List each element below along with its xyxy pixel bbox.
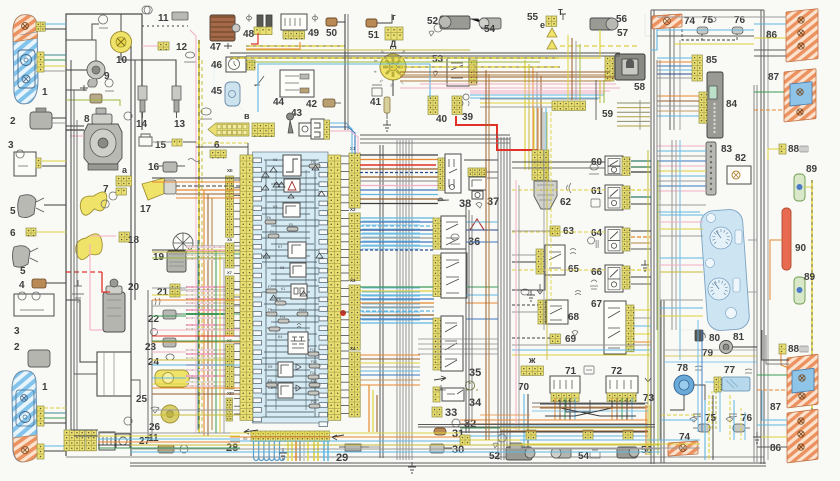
wire stubs left connectors to block bbox=[234, 179, 240, 181]
relay K3 hazard bbox=[284, 179, 300, 192]
svg-text:86: 86 bbox=[766, 30, 778, 41]
svg-text:2: 2 bbox=[14, 342, 20, 353]
wire right inner bundle bbox=[753, 85, 755, 462]
svg-text:83: 83 bbox=[721, 144, 733, 155]
sensor 32 bbox=[452, 419, 460, 427]
wire cross runs X to pillar bbox=[466, 221, 498, 223]
svg-text:55: 55 bbox=[527, 12, 539, 23]
wire right body frame bbox=[650, 10, 652, 464]
svg-text:57: 57 bbox=[617, 28, 629, 39]
fuse pills lower right bbox=[308, 352, 319, 356]
svg-text:14: 14 bbox=[136, 119, 148, 130]
spark plug 14 bbox=[138, 86, 147, 100]
wire cross dark bundle mid bbox=[360, 134, 510, 136]
svg-text:35: 35 bbox=[469, 367, 481, 379]
wire icons door switches bbox=[693, 414, 701, 417]
relay K1 bbox=[291, 284, 307, 299]
svg-text:16: 16 bbox=[148, 162, 160, 173]
wire 58 drops bbox=[599, 80, 601, 103]
connector 88 bottom bbox=[779, 344, 786, 354]
svg-text:XIII: XIII bbox=[227, 391, 234, 396]
motor 19 heater fan motor bbox=[173, 233, 193, 253]
wire trunk area bbox=[670, 395, 684, 410]
svg-text:7: 7 bbox=[103, 184, 109, 195]
connector 62 instrument harness bbox=[532, 150, 549, 180]
svg-text:50: 50 bbox=[326, 28, 338, 39]
relay K5 bbox=[283, 203, 300, 217]
svg-text:XII: XII bbox=[227, 168, 233, 173]
connector X0 bottom strip bbox=[251, 431, 329, 441]
starter 52 bottom bbox=[506, 447, 532, 460]
connector 12 bbox=[158, 42, 169, 50]
sensor 42 bbox=[323, 99, 335, 107]
svg-text:65: 65 bbox=[568, 264, 580, 275]
svg-text:51: 51 bbox=[368, 30, 380, 41]
label XIII connector bbox=[226, 398, 232, 421]
motor 56 rear wiper bbox=[590, 18, 614, 30]
connector 63 bbox=[550, 226, 560, 236]
item 41 antenna bbox=[384, 97, 390, 113]
wire 85 feeds bbox=[657, 57, 692, 59]
wire X2 X3 extra cyans bbox=[362, 220, 420, 222]
wire left vertical feeders bbox=[215, 250, 217, 433]
ECU 25 engine control unit bbox=[97, 352, 131, 396]
wire pillar to right section bbox=[512, 344, 651, 346]
svg-text:K7: K7 bbox=[278, 245, 282, 249]
wire 11 dashed bbox=[142, 25, 188, 27]
svg-text:47: 47 bbox=[210, 42, 222, 53]
wire 57 bundle vertical bbox=[669, 14, 671, 130]
relay K6 bbox=[283, 155, 301, 176]
svg-text:X4: X4 bbox=[350, 346, 356, 351]
wire to distributor bbox=[392, 80, 394, 96]
connector XII bbox=[226, 176, 234, 237]
mounting block body bbox=[253, 152, 329, 423]
switch 65 mirror adjust bbox=[536, 249, 545, 274]
wire bottom right cluster bbox=[661, 414, 700, 416]
svg-text:X3: X3 bbox=[350, 278, 356, 283]
svg-text:F4: F4 bbox=[270, 230, 274, 234]
svg-text:X8: X8 bbox=[227, 237, 233, 242]
connector 85 bbox=[692, 55, 702, 81]
svg-text:87: 87 bbox=[770, 402, 782, 413]
generator 8 bbox=[84, 124, 122, 164]
svg-text:74: 74 bbox=[684, 16, 696, 27]
wire 83 feeds bbox=[657, 145, 706, 147]
sensor 29 coolant temperature bbox=[345, 444, 361, 451]
connector 27 bottom group bbox=[64, 430, 85, 451]
sensor 50 bbox=[326, 18, 337, 26]
connector headlight lower bbox=[37, 406, 44, 426]
svg-text:18: 18 bbox=[128, 235, 140, 246]
svg-text:F7: F7 bbox=[268, 285, 272, 289]
sensor 16 air temp bbox=[163, 162, 177, 172]
sensor 31 brake fluid level bbox=[434, 428, 446, 435]
wire 89 yellow dashed bbox=[811, 180, 813, 300]
svg-text:г: г bbox=[392, 12, 396, 22]
lamp 82 glovebox bbox=[727, 166, 751, 184]
connector 83 bbox=[706, 142, 716, 195]
icons mid bbox=[521, 289, 529, 295]
switch 34 bbox=[433, 387, 440, 402]
motor 2 windscreen washer pump top bbox=[30, 112, 52, 129]
wire pink vertical bbox=[89, 244, 91, 330]
instrument cluster 81 bbox=[700, 209, 750, 332]
wire center pillar bundle bbox=[497, 137, 499, 460]
connector X3 bbox=[349, 285, 360, 350]
wire right cluster feeds vertical bbox=[659, 60, 661, 200]
wire cyan to 86 bottom bbox=[762, 390, 787, 420]
connector X0 ribbon drops bbox=[254, 441, 259, 461]
sensor 23 knock sensor bbox=[163, 338, 176, 347]
immobilizer 84 bbox=[707, 72, 723, 138]
svg-text:K1: K1 bbox=[281, 287, 285, 291]
relay 64 bbox=[605, 227, 623, 253]
switch 75 door top bbox=[697, 27, 708, 34]
wire X4 drops bbox=[368, 385, 370, 432]
wire top bundle to block bbox=[344, 14, 346, 143]
svg-text:49: 49 bbox=[308, 28, 320, 39]
wire right collector column bbox=[647, 150, 649, 455]
svg-text:78: 78 bbox=[677, 363, 689, 374]
switch 76 door top bbox=[732, 27, 743, 34]
relay 60 starter relay bbox=[605, 156, 623, 175]
svg-text:20: 20 bbox=[128, 282, 140, 293]
wire 87 top feeds bbox=[754, 91, 784, 93]
relay K8 bbox=[290, 263, 306, 277]
svg-text:26: 26 bbox=[149, 422, 161, 433]
wire 71 72 cross interconnect bbox=[560, 400, 636, 416]
wire orange harness vertical bbox=[203, 190, 205, 436]
svg-text:F6: F6 bbox=[267, 216, 271, 220]
wire trunk left verticals bbox=[697, 320, 699, 432]
svg-text:45: 45 bbox=[211, 86, 223, 97]
door lock unit 58 bbox=[615, 54, 645, 80]
connector 33 bbox=[432, 407, 442, 417]
motor 54 bottom bbox=[553, 448, 571, 458]
svg-text:81: 81 bbox=[733, 332, 745, 343]
connector X1 bbox=[349, 153, 360, 208]
svg-text:e: e bbox=[540, 20, 545, 30]
connector X2 bbox=[349, 213, 360, 281]
svg-text:F3: F3 bbox=[268, 379, 272, 383]
wire bundle X4 group bbox=[360, 354, 420, 356]
wire 90 feed bbox=[770, 240, 782, 300]
wire dark verticals right of switches bbox=[465, 205, 467, 433]
svg-text:44: 44 bbox=[273, 97, 285, 108]
svg-text:34: 34 bbox=[469, 397, 482, 409]
svg-text:F9: F9 bbox=[268, 308, 272, 312]
wire 68 to pillar bbox=[512, 304, 538, 306]
wire 79 to frame bbox=[733, 346, 757, 348]
wire relay 66 outputs bbox=[631, 269, 651, 271]
relay K7 bbox=[288, 242, 306, 258]
svg-text:17: 17 bbox=[140, 204, 152, 215]
wire coil to plugs bbox=[121, 53, 142, 86]
ground symbols bbox=[383, 120, 391, 131]
svg-text:40: 40 bbox=[436, 114, 448, 125]
wire 17 bundle to block bbox=[176, 185, 240, 187]
svg-text:4: 4 bbox=[19, 280, 25, 291]
connector X8 bbox=[226, 243, 234, 268]
svg-text:30: 30 bbox=[452, 444, 464, 456]
svg-text:89: 89 bbox=[806, 164, 818, 175]
svg-text:71: 71 bbox=[565, 366, 577, 377]
svg-text:77: 77 bbox=[724, 365, 736, 376]
wire right lamp feeds extra bbox=[657, 16, 786, 18]
motor 2 washer pump lower bbox=[28, 350, 50, 367]
sensor 51 bbox=[366, 19, 377, 27]
connector 6 top bbox=[26, 228, 36, 236]
wire bottom band extra bbox=[130, 448, 660, 450]
svg-text:48: 48 bbox=[243, 29, 255, 40]
svg-text:T: T bbox=[558, 8, 563, 17]
wire bundle X2 group bbox=[360, 217, 434, 219]
wire ECU harness bbox=[66, 300, 97, 362]
switch 36 hazard switch bbox=[433, 218, 441, 249]
wire headlight lower bbox=[44, 407, 66, 409]
switch 35 column bbox=[433, 318, 441, 370]
svg-text:8: 8 bbox=[84, 114, 90, 125]
wire 77 drops bbox=[711, 391, 713, 430]
wiper motor 52 bbox=[440, 16, 470, 29]
svg-text:F11: F11 bbox=[280, 315, 285, 319]
mounting block diodes bbox=[262, 172, 269, 177]
interior lamp 74 top bbox=[652, 14, 682, 29]
svg-text:K8: K8 bbox=[280, 266, 284, 270]
sensor 22 coolant temp sensor bbox=[163, 310, 176, 319]
wire sensors to bundle bbox=[369, 446, 380, 448]
relay K9 bbox=[278, 362, 293, 377]
mounting block left connector strip bbox=[240, 155, 253, 420]
svg-text:41: 41 bbox=[370, 97, 382, 108]
wire yellow top right bbox=[560, 45, 640, 47]
wire verticals below 55 bbox=[567, 35, 569, 100]
relay 66 bbox=[605, 265, 623, 292]
sensor 30-34 left bottom icons bbox=[436, 385, 446, 390]
fan 7 radiator electric fan bbox=[78, 187, 109, 219]
wire bundle X1 to switch 38 bbox=[360, 154, 438, 156]
motor 56 bottom bbox=[617, 447, 637, 458]
wire bottom center bundle bbox=[460, 419, 648, 421]
switch 76 bottom bbox=[733, 424, 745, 432]
wire stubs block right to X connectors bbox=[341, 155, 349, 157]
svg-text:X6: X6 bbox=[227, 338, 233, 343]
wire red feed 48 bbox=[251, 33, 258, 44]
wire mid vertical bundle bbox=[379, 145, 381, 458]
connector X7 bbox=[226, 276, 234, 336]
tail lamp 86 bottom bbox=[787, 409, 818, 463]
svg-text:F5: F5 bbox=[289, 223, 293, 227]
svg-text:ж: ж bbox=[528, 355, 536, 365]
wire left frame horizontals bbox=[66, 125, 84, 127]
wire components to connectors bbox=[152, 249, 186, 251]
connector X4 bbox=[349, 352, 360, 417]
mounting block edge notches bbox=[253, 158, 262, 163]
svg-text:F13: F13 bbox=[311, 360, 317, 364]
svg-text:K6: K6 bbox=[273, 158, 277, 162]
connector 11 top bbox=[142, 6, 152, 14]
wire misc top colored bbox=[480, 102, 560, 104]
wire relay 60 outputs bbox=[631, 160, 651, 162]
ignition coil 20 module bbox=[103, 292, 125, 332]
arrows direction bbox=[434, 376, 446, 381]
svg-text:39: 39 bbox=[462, 112, 474, 123]
wire mid verticals 515-545 bbox=[515, 180, 517, 430]
wire engine-bay harness frame bbox=[66, 14, 142, 456]
svg-text:12: 12 bbox=[176, 42, 188, 53]
wire pink top harness bbox=[400, 87, 620, 89]
svg-text:46: 46 bbox=[211, 60, 223, 71]
wire 9 to frame bbox=[66, 69, 87, 71]
svg-text:6: 6 bbox=[214, 140, 220, 151]
switch 67 heater control bbox=[604, 301, 626, 354]
connector 84 strip bbox=[699, 92, 707, 123]
wire engine harness to block left bbox=[186, 245, 240, 247]
sensor 9 oil pressure bbox=[87, 61, 105, 79]
svg-text:88: 88 bbox=[788, 344, 800, 355]
svg-text:2: 2 bbox=[10, 116, 16, 127]
high mount stop 90 bbox=[782, 208, 791, 270]
svg-text:61: 61 bbox=[591, 186, 603, 197]
svg-text:62: 62 bbox=[560, 197, 572, 208]
wire washer to frame bbox=[52, 117, 66, 119]
wire yellow dashed top harness bbox=[246, 45, 345, 47]
switch 49 heater bbox=[281, 14, 307, 30]
wire trunk bottom bundle bbox=[520, 439, 700, 441]
svg-text:21: 21 bbox=[157, 287, 169, 298]
svg-text:1: 1 bbox=[42, 87, 48, 98]
item 3 lamp box bbox=[14, 152, 36, 176]
blower motor 47 bbox=[210, 15, 235, 41]
connector 4 bbox=[32, 279, 46, 288]
wire mid black dash runs bbox=[512, 161, 605, 163]
wire 84 feeds bbox=[657, 95, 699, 97]
svg-text:88: 88 bbox=[788, 144, 800, 155]
additional brake light 89 bottom bbox=[794, 277, 805, 304]
svg-text:42: 42 bbox=[306, 99, 318, 110]
svg-text:87: 87 bbox=[768, 72, 780, 83]
wire right top cross bbox=[657, 29, 754, 31]
spark plug 13 bbox=[172, 86, 181, 100]
svg-text:86: 86 bbox=[770, 443, 782, 454]
svg-text:52: 52 bbox=[489, 451, 501, 462]
switch 68 bbox=[538, 300, 546, 324]
fuse pills upper bbox=[265, 220, 276, 224]
svg-text:60: 60 bbox=[591, 157, 603, 168]
svg-text:11: 11 bbox=[158, 13, 169, 24]
sensor 79 fuel sender bbox=[720, 341, 733, 354]
sensor 30 oil level bbox=[430, 444, 444, 453]
horn 5 top bbox=[18, 195, 36, 218]
item 15 brake fluid bbox=[139, 134, 152, 146]
wire red power engine bay bbox=[66, 271, 102, 273]
svg-text:5: 5 bbox=[10, 206, 16, 217]
connector 21 bbox=[170, 287, 180, 297]
svg-text:84: 84 bbox=[726, 99, 738, 110]
svg-text:3: 3 bbox=[8, 140, 14, 151]
svg-text:58: 58 bbox=[634, 82, 646, 93]
wire pillar left feeds bbox=[418, 338, 498, 340]
svg-text:F1: F1 bbox=[311, 160, 315, 164]
wire tops verticals center bbox=[524, 60, 526, 170]
svg-text:F10: F10 bbox=[299, 308, 305, 312]
svg-text:90: 90 bbox=[795, 243, 807, 254]
connector 88 top bbox=[779, 144, 786, 154]
wire inner frame bottom double line bbox=[418, 424, 655, 426]
additional brake light 89 top bbox=[794, 174, 805, 201]
mounting block internal traces bbox=[264, 159, 319, 161]
svg-text:52: 52 bbox=[427, 16, 439, 27]
wire bundle X3 group bbox=[360, 286, 434, 288]
wire yellow dashed harness vertical bbox=[198, 40, 200, 433]
svg-text:X2: X2 bbox=[350, 207, 356, 212]
resistor 48 bbox=[257, 15, 263, 28]
wire bottom left bundle bbox=[98, 432, 240, 434]
fan icon bbox=[101, 192, 117, 208]
svg-text:K4: K4 bbox=[278, 335, 282, 339]
svg-text:9: 9 bbox=[104, 71, 110, 82]
wire left frame trunk bbox=[70, 60, 72, 430]
wire engine-bay inner vertical bbox=[130, 42, 132, 456]
svg-text:25: 25 bbox=[136, 394, 148, 405]
wire cluster feeds bbox=[660, 214, 703, 216]
svg-text:56: 56 bbox=[641, 445, 653, 456]
wire left mid extra bbox=[152, 181, 240, 183]
svg-text:80: 80 bbox=[709, 333, 721, 344]
box 46 clock bbox=[226, 57, 246, 72]
switch 53 lighting switch bbox=[447, 58, 469, 86]
svg-text:X0: X0 bbox=[243, 437, 247, 441]
wire 86 top feeds bbox=[754, 23, 786, 25]
mounting block bus verticals bbox=[265, 160, 267, 417]
svg-text:1: 1 bbox=[42, 382, 48, 393]
svg-text:F15: F15 bbox=[311, 379, 317, 383]
svg-text:73: 73 bbox=[643, 393, 655, 404]
svg-text:75: 75 bbox=[705, 413, 717, 424]
icon horn small bbox=[99, 15, 108, 28]
interior lamp 74 bottom bbox=[668, 441, 698, 456]
wire top verticals at 485 bbox=[485, 70, 487, 440]
lamp 45 underhood bbox=[225, 82, 240, 106]
wire 67 outputs bbox=[634, 309, 651, 311]
svg-text:в: в bbox=[244, 111, 250, 121]
icon window 71 72 bbox=[584, 366, 594, 374]
rear horn 78 bbox=[674, 375, 694, 395]
lamp box 3 lower bbox=[14, 294, 54, 316]
svg-text:33: 33 bbox=[445, 407, 457, 419]
distributor 17 bbox=[142, 178, 168, 200]
svg-text:74: 74 bbox=[679, 432, 691, 443]
svg-text:F12: F12 bbox=[310, 348, 316, 352]
relay K4 heated rear window bbox=[288, 332, 308, 354]
wire right mid cross bbox=[657, 204, 706, 206]
horn 5 lower bbox=[13, 246, 31, 267]
wire frame top stubs bbox=[120, 14, 122, 31]
connector bottom row small bbox=[526, 430, 536, 440]
wire thick red run bbox=[456, 116, 537, 171]
svg-text:F16: F16 bbox=[311, 400, 317, 404]
wire dark to 87 top bbox=[762, 330, 789, 360]
svg-text:29: 29 bbox=[336, 452, 348, 464]
ignition coil 10 bbox=[111, 32, 132, 53]
connector headlight top bbox=[36, 22, 45, 31]
svg-text:F14: F14 bbox=[310, 371, 316, 375]
headlight unit 1 top bbox=[13, 15, 38, 104]
sensor 26 crankshaft position bbox=[161, 405, 179, 423]
svg-text:F8: F8 bbox=[277, 297, 281, 301]
svg-text:89: 89 bbox=[804, 272, 816, 283]
